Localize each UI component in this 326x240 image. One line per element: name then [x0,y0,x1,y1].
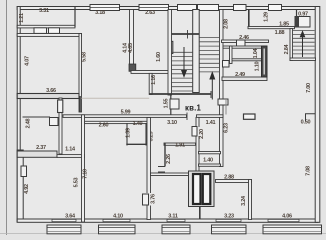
corridor bottom wall right segment [197,115,224,118]
right wall pilaster [306,114,316,121]
window in loggia wall left [34,28,47,34]
svg-text:1.40: 1.40 [203,158,213,164]
big room left wall [82,115,85,222]
svg-text:2.37: 2.37 [36,145,46,151]
rooms top wall below corridor [85,121,148,123]
vent shaft slot right [203,174,211,204]
right staircase up arrow [300,32,304,58]
svg-text:1.60: 1.60 [156,52,162,62]
door box storage [50,118,59,126]
bottom window opening 1 [52,219,76,221]
lift shaft dark bar [295,17,299,28]
wc bottom wall [222,77,267,81]
door gap in center wall [146,193,151,206]
svg-text:1.39: 1.39 [126,128,132,138]
sheet frame left line [6,0,8,235]
window in loggia wall right [49,28,60,34]
room 1.40b top wall [199,152,221,154]
wall below room 2.63 [131,71,169,74]
wall right of kitchen [248,10,250,29]
svg-text:3.11: 3.11 [168,213,178,219]
storage room top wall [23,116,51,118]
exterior left wall [17,7,20,223]
svg-text:2.88: 2.88 [224,175,234,181]
bottom window opening 5 [268,219,299,221]
svg-text:5.99: 5.99 [121,110,131,116]
svg-text:1.14: 1.14 [65,146,76,152]
landing tick [187,30,189,39]
door box on hall wall [58,100,63,113]
balcony box 3 [162,225,190,234]
hall left wall below stairs [170,94,172,118]
svg-text:кв.1: кв.1 [185,104,201,113]
svg-text:2.84: 2.84 [284,43,290,54]
stairwell left wall [168,10,172,96]
svg-text:2.20: 2.20 [199,129,205,139]
main vertical wall center [147,118,151,220]
svg-text:1.85: 1.85 [279,22,289,28]
door box hallway [192,127,197,137]
window W5 top wall [234,5,247,11]
bottom window opening 2 [103,219,130,221]
door box right of hall [218,99,228,105]
svg-text:1.55: 1.55 [163,98,169,108]
room 1.91 left wall [164,143,166,167]
wc middle wall [230,59,268,61]
kitchen bottom wall [222,40,269,43]
right staircase steps [293,31,315,54]
door jamb marks room 1.91 [158,166,165,168]
svg-text:3.66: 3.66 [46,88,56,94]
svg-text:1.10: 1.10 [255,61,261,71]
vent dark wall right of wc [262,46,268,77]
wall below shaft [199,207,201,220]
loggia bottom wall top-left [17,25,75,28]
door box on center wall [143,194,149,205]
svg-text:4.06: 4.06 [282,213,292,219]
closet right wall [145,123,147,146]
bottom window opening 3 [167,219,185,221]
svg-text:2.49: 2.49 [235,72,245,78]
exterior bottom wall [17,219,318,222]
wc top wall [223,46,267,48]
storage room right wall [59,98,62,154]
stair divider [193,10,200,93]
corridor bottom wall long [63,115,187,118]
room 1.40b bottom wall [199,164,221,166]
niche rect [244,114,256,119]
top-left room bottom thick wall [17,94,79,99]
vent shaft outer [189,171,215,207]
left flight steps [172,52,193,91]
svg-text:7.08: 7.08 [306,166,312,176]
svg-text:2.26: 2.26 [166,154,172,164]
corridor jamb wall [79,96,81,112]
wall 1.14 [57,155,85,158]
svg-text:5.53: 5.53 [74,177,80,187]
room 1.91 top wall [164,143,196,145]
window W2 top wall [139,5,169,11]
svg-text:1.88: 1.88 [275,30,285,36]
exterior left wall lower thicker part [17,150,23,222]
right staircase left wall [290,29,293,61]
kitchen door box [237,40,246,47]
vent box inside stairwell [169,41,173,53]
wc left wall [230,46,233,64]
bottom window opening 4 [216,219,241,221]
partition wall between top rooms [130,10,134,66]
svg-text:0.97: 0.97 [298,12,308,18]
window W1 top wall [90,5,120,11]
svg-text:4.10: 4.10 [113,213,123,219]
svg-text:3.23: 3.23 [224,213,234,219]
window W6 top wall [269,5,282,11]
balcony box 5 [263,225,322,234]
svg-text:1.91: 1.91 [175,142,185,148]
svg-text:7.10: 7.10 [83,169,89,179]
faint former partition line [82,97,150,99]
window W3 top wall [178,5,197,11]
balcony box 1 [47,225,81,234]
loggia right wall [74,7,76,27]
svg-text:3.24: 3.24 [241,195,247,206]
sheet frame bottom line [0,232,326,234]
room 1.91 bottom wall [151,173,196,176]
svg-text:2.08: 2.08 [224,19,230,29]
svg-text:3.31: 3.31 [39,8,49,14]
wall down from 2.88 wall [249,180,252,220]
closet bottom wall [126,143,147,145]
door box left of hall [170,99,179,109]
stair upper landing line [172,33,200,35]
left wall door gap [20,166,24,177]
svg-text:7.00: 7.00 [306,83,312,93]
wc door box [223,61,230,68]
svg-text:3.76: 3.76 [151,194,157,204]
stair bottom landing wall [149,93,211,95]
wall stub above lift [296,10,298,17]
open door leaf [225,99,227,115]
svg-text:4.05: 4.05 [128,43,134,53]
stairwell right wall [220,10,224,167]
exterior right wall [315,7,320,223]
svg-text:1.21: 1.21 [19,13,25,23]
door tick corridor [186,113,188,121]
svg-text:1.40: 1.40 [133,121,143,127]
room 1.91 right wall / hallway wall [196,117,199,175]
svg-text:2.63: 2.63 [145,10,155,16]
svg-text:1.16: 1.16 [151,75,157,85]
balcony box 2 [99,225,136,234]
svg-text:1.04: 1.04 [253,47,259,58]
door gap in hallway wall [195,127,199,136]
storage room bottom thick wall [17,151,57,157]
svg-text:2.48: 2.48 [26,118,32,128]
stair down arrow [182,47,187,77]
svg-text:4.92: 4.92 [24,184,30,194]
svg-text:6.23: 6.23 [224,123,230,133]
svg-text:3.64: 3.64 [65,213,76,219]
vent shaft slot left [193,174,201,204]
top-left room right wall [79,34,82,113]
top-left room top wall [17,34,81,37]
lift shaft top right [295,17,310,28]
svg-text:4.07: 4.07 [25,56,31,66]
svg-text:3.18: 3.18 [95,10,105,16]
svg-text:5.58: 5.58 [82,52,88,62]
upper corridor wall right [248,27,295,29]
right flight steps [199,38,219,72]
wall right of shaft [216,180,252,183]
svg-text:1.29: 1.29 [264,12,270,22]
stair up arrow [210,73,215,100]
window W4 top wall [198,5,219,11]
svg-text:2.60: 2.60 [99,123,109,129]
closet left wall [126,123,128,146]
svg-text:3.10: 3.10 [167,120,177,126]
balcony box 4 [212,225,247,234]
partition wall end cap [129,64,136,71]
right staircase bottom wall [290,58,316,61]
exterior top wall [17,7,318,10]
svg-text:1.41: 1.41 [206,120,216,126]
vestibule left wall [149,73,152,94]
